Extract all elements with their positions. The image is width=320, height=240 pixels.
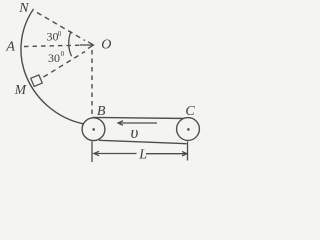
roller B (left pulley): [82, 118, 105, 141]
svg-text:O: O: [101, 38, 111, 53]
dashed radius O-N: [37, 13, 85, 41]
belt bottom line: [99, 140, 187, 143]
svg-text:30: 30: [48, 51, 60, 65]
dashed radius A-O: [24, 45, 80, 46]
svg-text:M: M: [14, 82, 27, 97]
dashed radius O-M: [44, 52, 86, 78]
belt velocity arrow: [119, 122, 158, 124]
dimension line L left part with arrowhead: [94, 153, 137, 155]
arrow at O on A-O line: [80, 44, 92, 46]
dimension tick left at B: [91, 142, 93, 163]
svg-text:0: 0: [61, 50, 65, 58]
dimension line L right part with arrowhead: [146, 153, 187, 155]
angle arc at O: [69, 31, 72, 56]
svg-text:30: 30: [47, 30, 59, 44]
vertical dashed line O-B: [91, 50, 93, 115]
roller B axle dot: [92, 128, 95, 131]
arc track N-A-M-B: [21, 9, 86, 124]
svg-text:C: C: [185, 104, 195, 119]
roller C (right pulley): [177, 118, 200, 141]
svg-text:N: N: [18, 1, 29, 16]
svg-text:L: L: [138, 147, 147, 162]
dimension tick right at C: [187, 142, 189, 161]
svg-text:0: 0: [58, 30, 62, 38]
svg-text:A: A: [5, 40, 15, 55]
svg-text:υ: υ: [131, 123, 139, 142]
svg-text:B: B: [97, 104, 106, 119]
roller C axle dot: [187, 128, 190, 131]
block (square) at M: [31, 75, 43, 87]
belt top line B-C: [93, 117, 189, 118]
